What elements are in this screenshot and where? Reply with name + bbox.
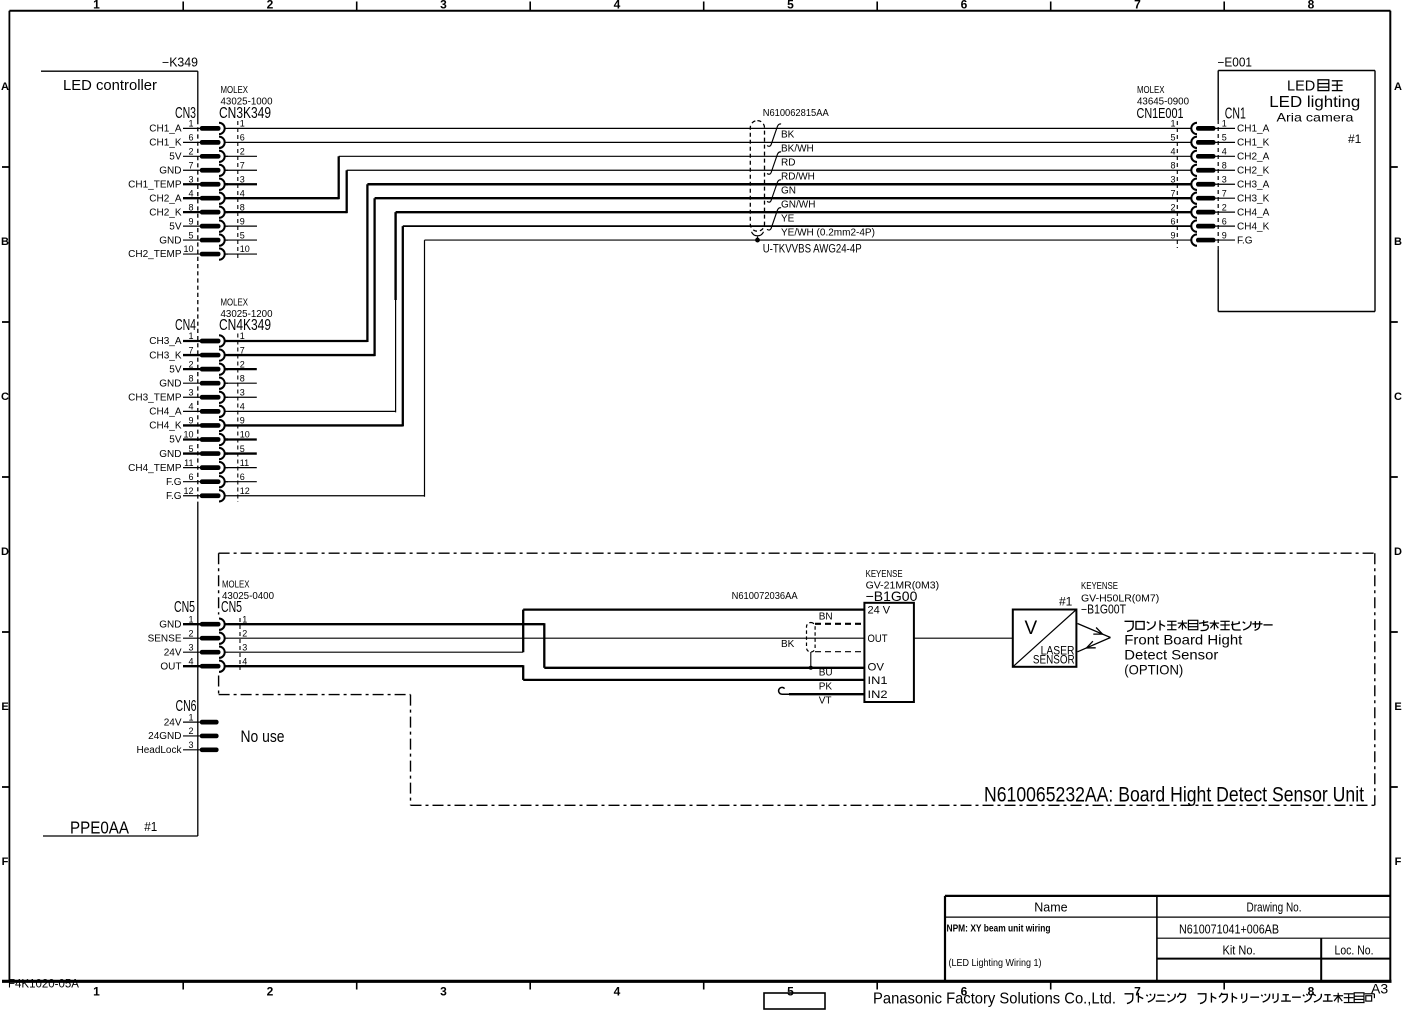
svg-text:5: 5 — [1170, 133, 1175, 143]
svg-text:GND: GND — [159, 378, 181, 389]
svg-text:CH1_A: CH1_A — [1237, 124, 1270, 135]
svg-text:4: 4 — [240, 402, 245, 412]
svg-text:3: 3 — [440, 985, 447, 999]
connector CN3 pin 5 (GND) — [159, 230, 245, 246]
svg-text:IN2: IN2 — [868, 689, 888, 701]
svg-text:11: 11 — [240, 458, 249, 468]
connector CN4 pin 4 (CH4_A) — [149, 402, 245, 418]
svg-text:5: 5 — [787, 0, 794, 12]
svg-text:6: 6 — [1222, 216, 1227, 226]
svg-text:CH2_TEMP: CH2_TEMP — [128, 249, 182, 260]
svg-text:HeadLock: HeadLock — [136, 745, 182, 756]
svg-text:CN3K349: CN3K349 — [219, 105, 271, 122]
svg-text:GN: GN — [781, 186, 796, 197]
svg-text:OV: OV — [868, 662, 885, 674]
svg-text:E: E — [1, 701, 8, 713]
LED controller -K349 — [41, 56, 198, 836]
svg-text:N610065232AA: Board Hight Dete: N610065232AA: Board Hight Detect Sensor … — [984, 784, 1364, 807]
connector CN4 pin 11 (CH4_TEMP) — [128, 458, 249, 474]
svg-text:N610062815AA: N610062815AA — [763, 107, 829, 119]
connector CN1 pin 2 (CH4_A) — [1170, 202, 1269, 218]
svg-text:1: 1 — [188, 331, 193, 341]
svg-text:3: 3 — [242, 642, 247, 652]
svg-text:8: 8 — [1308, 0, 1315, 12]
svg-text:MOLEX: MOLEX — [222, 580, 250, 591]
wire 24V to 24 V (BN) — [228, 610, 864, 653]
connector CN4 mating dashed line — [237, 334, 239, 503]
svg-text:9: 9 — [188, 216, 193, 226]
svg-text:GND: GND — [159, 165, 181, 176]
connector CN1 pin 8 (CH2_K) — [1170, 160, 1269, 176]
svg-text:3: 3 — [188, 740, 193, 750]
svg-text:8: 8 — [1222, 160, 1227, 170]
svg-text:3: 3 — [240, 174, 245, 184]
svg-text:BK: BK — [781, 639, 795, 650]
connector CN3 pin 8 (CH2_K) — [149, 202, 245, 218]
svg-text:10: 10 — [183, 430, 193, 440]
svg-text:CH3_TEMP: CH3_TEMP — [128, 392, 182, 403]
footer Panasonic Factory Solutions — [873, 990, 1374, 1007]
wire B1G00 OUT to laser sensor — [914, 637, 1013, 639]
connector CN1 pin 1 (CH1_A) — [1170, 119, 1269, 135]
connector CN4 pin 2 (5V) — [169, 359, 245, 375]
svg-text:NPM: XY beam unit wiring: NPM: XY beam unit wiring — [947, 923, 1051, 935]
cable shield (dashed oval) — [750, 121, 764, 232]
svg-text:CN5: CN5 — [221, 599, 242, 616]
svg-text:BU: BU — [819, 668, 833, 679]
connector CN1E001 mating dashed line — [1176, 121, 1178, 248]
connector CN3 pin 3 (CH1_TEMP) — [128, 174, 245, 190]
wire CH4_A (YE) — [228, 212, 1191, 412]
svg-text:CN5: CN5 — [174, 599, 195, 616]
wire OUT to IN1 (bold) — [228, 665, 864, 680]
svg-text:5: 5 — [787, 985, 794, 999]
svg-text:4: 4 — [240, 188, 245, 198]
svg-text:2: 2 — [267, 985, 274, 999]
svg-text:BK: BK — [781, 130, 795, 141]
svg-text:VT: VT — [819, 696, 832, 707]
svg-text:9: 9 — [188, 416, 193, 426]
svg-text:−B1G00: −B1G00 — [866, 588, 918, 604]
wire CH4_K (YE/WH) — [228, 226, 1191, 426]
connector CN5 pin 1 (GND) — [159, 614, 247, 630]
svg-text:CH2_K: CH2_K — [1237, 165, 1270, 176]
svg-text:7: 7 — [1222, 188, 1227, 198]
svg-text:24GND: 24GND — [148, 731, 181, 742]
svg-text:LED lighting: LED lighting — [1269, 94, 1360, 111]
svg-text:PPE0AA: PPE0AA — [70, 817, 129, 837]
svg-text:8: 8 — [1170, 160, 1175, 170]
svg-text:12: 12 — [240, 486, 250, 496]
CN4 unused pin stubs — [225, 369, 257, 482]
label No use — [241, 728, 285, 746]
svg-text:4: 4 — [614, 985, 621, 999]
wire SENSE to OUT — [228, 637, 864, 639]
svg-text:3: 3 — [188, 387, 193, 397]
svg-text:7: 7 — [188, 345, 193, 355]
title block table — [945, 896, 1390, 981]
svg-text:F.G: F.G — [166, 477, 182, 488]
wire CH2_A (RD) — [228, 156, 1191, 199]
svg-text:No use: No use — [241, 728, 285, 746]
svg-text:5: 5 — [240, 230, 245, 240]
svg-text:CH1_TEMP: CH1_TEMP — [128, 179, 182, 190]
svg-text:3: 3 — [1222, 174, 1227, 184]
label PPE0AA #1 — [70, 817, 157, 837]
svg-text:MOLEX: MOLEX — [1137, 85, 1165, 96]
svg-text:−E001: −E001 — [1218, 56, 1253, 70]
svg-text:U-TKVVBS AWG24-4P: U-TKVVBS AWG24-4P — [763, 244, 862, 256]
svg-text:F4K1020-05A: F4K1020-05A — [8, 979, 79, 991]
B1G00 wire colour labels — [781, 612, 833, 707]
shield bubble on BK wire — [807, 623, 865, 670]
svg-text:OUT: OUT — [160, 661, 181, 672]
svg-text:2: 2 — [240, 147, 245, 157]
svg-text:2: 2 — [1170, 202, 1175, 212]
svg-text:9: 9 — [240, 216, 245, 226]
laser sensor -B1G00T (KEYENSE GV-H50LR) — [1013, 581, 1159, 667]
svg-text:6: 6 — [188, 472, 193, 482]
sensor description (Japanese) — [1124, 620, 1272, 677]
laser beam arrows — [1078, 624, 1111, 652]
svg-text:5: 5 — [1222, 133, 1227, 143]
connector CN3 mating dashed line — [237, 121, 239, 260]
svg-text:CN1E001: CN1E001 — [1137, 105, 1184, 122]
svg-text:CH3_A: CH3_A — [149, 336, 182, 347]
svg-text:4: 4 — [188, 656, 193, 666]
svg-text:CH3_K: CH3_K — [1237, 193, 1270, 204]
svg-text:Drawing No.: Drawing No. — [1247, 901, 1302, 915]
connector CN5 mating dashed line — [239, 618, 241, 670]
svg-text:D: D — [1, 546, 9, 558]
svg-text:8: 8 — [240, 373, 245, 383]
wire CH1_A (BK) — [228, 127, 1191, 129]
connector CN4 pin 9 (CH4_K) — [149, 416, 245, 432]
wire GND to 0V (bold) — [228, 623, 864, 668]
connector CN1 pin 7 (CH3_K) — [1170, 188, 1269, 204]
svg-text:C: C — [1, 391, 9, 403]
svg-text:5: 5 — [188, 444, 193, 454]
svg-text:F: F — [1395, 856, 1402, 868]
svg-text:4: 4 — [1222, 147, 1227, 157]
svg-text:#1: #1 — [1348, 132, 1362, 146]
svg-text:CH4_K: CH4_K — [149, 421, 182, 432]
svg-text:1: 1 — [1222, 119, 1227, 129]
svg-text:1: 1 — [188, 614, 193, 624]
wire CH2_K (RD/WH) — [228, 170, 1191, 213]
wire CH1_K (BK/WH) — [228, 141, 1191, 143]
svg-text:CH4_A: CH4_A — [1237, 207, 1270, 218]
connector CN5 header MOLEX 43025-0400 CN5 — [174, 580, 274, 616]
svg-text:RD/WH: RD/WH — [781, 172, 815, 183]
cable type label — [763, 244, 862, 256]
svg-text:6: 6 — [240, 133, 245, 143]
svg-text:6: 6 — [1170, 216, 1175, 226]
connector CN3 pin 4 (CH2_A) — [149, 188, 245, 204]
svg-text:A: A — [1394, 81, 1402, 93]
connector CN4 pin 10 (5V) — [169, 430, 250, 446]
svg-text:24 V: 24 V — [868, 605, 891, 617]
svg-text:OUT: OUT — [868, 633, 888, 645]
svg-text:BK/WH: BK/WH — [781, 144, 814, 155]
connector CN3 pin 7 (GND) — [159, 160, 245, 176]
svg-text:1: 1 — [188, 712, 193, 722]
connector CN3 pin 2 (5V) — [169, 147, 245, 163]
svg-text:CH4_K: CH4_K — [1237, 221, 1270, 232]
svg-text:B: B — [1, 236, 9, 248]
wire IN2 hook (VT) — [779, 687, 865, 694]
svg-text:1: 1 — [240, 331, 245, 341]
kanji 照明 (LED照明) — [1318, 80, 1343, 91]
svg-text:1: 1 — [93, 985, 100, 999]
svg-text:YE/WH (0.2mm2-4P): YE/WH (0.2mm2-4P) — [781, 227, 875, 238]
svg-text:RD: RD — [781, 158, 795, 169]
svg-text:3: 3 — [188, 174, 193, 184]
svg-text:CH1_K: CH1_K — [149, 138, 182, 149]
svg-text:8: 8 — [188, 202, 193, 212]
svg-text:YE: YE — [781, 213, 795, 224]
shield drain symbol — [752, 232, 764, 240]
svg-text:3: 3 — [440, 0, 447, 12]
svg-text:GND: GND — [159, 619, 181, 630]
svg-text:11: 11 — [184, 458, 193, 468]
option unit boundary N610065232AA (dash-dot) — [219, 553, 1375, 805]
amplifier unit -B1G00 (KEYENSE GV-21MR) — [864, 569, 939, 702]
svg-text:CH2_A: CH2_A — [1237, 152, 1270, 163]
svg-text:−K349: −K349 — [162, 56, 198, 70]
wire CH3_A (GN) — [228, 184, 1191, 342]
svg-text:D: D — [1394, 546, 1402, 558]
svg-text:2: 2 — [188, 726, 193, 736]
svg-text:V: V — [1025, 618, 1038, 639]
connector CN1 pin 3 (CH3_A) — [1170, 174, 1269, 190]
svg-text:N610071041+006AB: N610071041+006AB — [1179, 922, 1279, 937]
svg-text:KEYENSE: KEYENSE — [1081, 581, 1118, 592]
svg-text:3: 3 — [1170, 174, 1175, 184]
cable N610062815AA label — [763, 107, 829, 119]
svg-text:BN: BN — [819, 612, 833, 623]
svg-text:SENSOR: SENSOR — [1033, 655, 1075, 667]
svg-text:Kit No.: Kit No. — [1223, 944, 1256, 958]
CN3 unused pin stubs — [225, 156, 257, 254]
svg-text:C: C — [1394, 391, 1402, 403]
svg-text:IN1: IN1 — [868, 675, 888, 687]
svg-text:CH4_A: CH4_A — [149, 407, 182, 418]
svg-text:GN/WH: GN/WH — [781, 200, 815, 211]
connector CN1 pin 6 (CH4_K) — [1170, 216, 1269, 232]
cable N610072036AA label — [732, 590, 798, 602]
connector CN3 pin 6 (CH1_K) — [149, 133, 245, 149]
connector CN4 pin 7 (CH3_K) — [149, 345, 245, 361]
svg-text:3: 3 — [240, 387, 245, 397]
svg-text:#1: #1 — [144, 819, 157, 834]
svg-text:5V: 5V — [169, 364, 182, 375]
svg-text:(LED Lighting Wiring 1): (LED Lighting Wiring 1) — [949, 957, 1042, 969]
svg-text:6: 6 — [240, 472, 245, 482]
svg-text:Name: Name — [1034, 901, 1067, 915]
svg-text:10: 10 — [240, 244, 250, 254]
svg-text:Loc. No.: Loc. No. — [1335, 944, 1374, 958]
svg-text:9: 9 — [240, 416, 245, 426]
svg-text:7: 7 — [1134, 0, 1141, 12]
svg-text:7: 7 — [240, 160, 245, 170]
svg-text:8: 8 — [188, 373, 193, 383]
connector CN4 header MOLEX 43025-1200 CN4K349 — [175, 298, 273, 335]
E001 titles — [1137, 85, 1362, 146]
svg-text:10: 10 — [183, 244, 193, 254]
svg-text:1: 1 — [1170, 119, 1175, 129]
connector CN6 pin 1 (24V) — [164, 712, 219, 728]
svg-text:4: 4 — [614, 0, 621, 12]
svg-text:CH1_A: CH1_A — [149, 124, 182, 135]
wire F.G — [228, 240, 1191, 497]
connector CN1 pin 9 (F.G) — [1170, 230, 1252, 246]
svg-text:5V: 5V — [169, 221, 182, 232]
wire CH3_K (GN/WH) — [228, 198, 1191, 356]
svg-text:F.G: F.G — [1237, 235, 1253, 246]
svg-text:7: 7 — [1170, 188, 1175, 198]
svg-text:Aria camera: Aria camera — [1277, 111, 1354, 125]
svg-text:5V: 5V — [169, 152, 182, 163]
connector CN6 pin 2 (24GND) — [148, 726, 218, 742]
LED lighting unit -E001 box — [1218, 56, 1376, 312]
connector CN4 pin 8 (GND) — [159, 373, 245, 389]
svg-text:1: 1 — [242, 614, 247, 624]
svg-text:2: 2 — [188, 359, 193, 369]
svg-text:4: 4 — [242, 656, 247, 666]
connector CN3 pin 9 (5V) — [169, 216, 245, 232]
svg-text:Detect Sensor: Detect Sensor — [1124, 648, 1218, 663]
svg-text:PK: PK — [819, 682, 833, 693]
connector CN5 pin 3 (24V) — [164, 642, 248, 658]
connector CN4 pin 3 (CH3_TEMP) — [128, 387, 245, 403]
svg-text:N610072036AA: N610072036AA — [732, 590, 798, 602]
option unit label — [984, 784, 1364, 807]
svg-text:7: 7 — [188, 160, 193, 170]
connector CN5 pin 2 (SENSE) — [148, 628, 248, 644]
svg-text:4: 4 — [1170, 147, 1175, 157]
svg-text:CH1_K: CH1_K — [1237, 138, 1270, 149]
svg-text:5V: 5V — [169, 435, 182, 446]
svg-text:4: 4 — [188, 188, 193, 198]
svg-text:MOLEX: MOLEX — [221, 85, 249, 96]
junction dot shield drain to F.G — [755, 238, 760, 243]
svg-text:4: 4 — [188, 402, 193, 412]
svg-text:CN1: CN1 — [1225, 106, 1246, 123]
svg-text:−B1G00T: −B1G00T — [1081, 603, 1126, 617]
connector CN4 pin 6 (F.G) — [166, 472, 245, 488]
svg-text:F: F — [2, 856, 9, 868]
svg-text:6: 6 — [961, 0, 968, 12]
svg-text:KEYENSE: KEYENSE — [866, 569, 903, 580]
connector CN4 pin 1 (CH3_A) — [149, 331, 245, 347]
twisted pair marks — [767, 124, 781, 230]
svg-text:2: 2 — [240, 359, 245, 369]
svg-text:CH2_K: CH2_K — [149, 207, 182, 218]
svg-text:(OPTION): (OPTION) — [1124, 663, 1183, 678]
svg-text:2: 2 — [267, 0, 274, 12]
connector CN4 pin 12 (F.G) — [166, 486, 250, 502]
svg-text:8: 8 — [240, 202, 245, 212]
svg-text:A: A — [1, 81, 9, 93]
svg-text:Panasonic Factory Solutions Co: Panasonic Factory Solutions Co.,Ltd. — [873, 990, 1116, 1007]
svg-text:MOLEX: MOLEX — [221, 298, 249, 309]
svg-text:6: 6 — [188, 133, 193, 143]
svg-text:2: 2 — [242, 628, 247, 638]
svg-text:9: 9 — [1170, 230, 1175, 240]
svg-text:GND: GND — [159, 449, 181, 460]
svg-text:CN4K349: CN4K349 — [219, 317, 271, 334]
svg-text:GND: GND — [159, 235, 181, 246]
svg-text:2: 2 — [188, 628, 193, 638]
svg-text:CH2_A: CH2_A — [149, 193, 182, 204]
svg-text:10: 10 — [240, 430, 250, 440]
svg-text:Front Board Hight: Front Board Hight — [1124, 633, 1242, 648]
svg-text:9: 9 — [1222, 230, 1227, 240]
connector CN3 header MOLEX 43025-1000 CN3K349 — [175, 85, 273, 122]
svg-text:2: 2 — [188, 147, 193, 157]
svg-text:2: 2 — [1222, 202, 1227, 212]
connector CN6 header — [176, 698, 197, 715]
svg-text:1: 1 — [240, 119, 245, 129]
svg-text:#1: #1 — [1059, 595, 1073, 609]
svg-text:LED controller: LED controller — [63, 77, 157, 94]
svg-text:5: 5 — [188, 230, 193, 240]
connector CN4 pin 5 (GND) — [159, 444, 245, 460]
svg-text:24V: 24V — [164, 647, 182, 658]
connector CN1 pin 4 (CH2_A) — [1170, 147, 1269, 163]
svg-text:CH3_K: CH3_K — [149, 350, 182, 361]
svg-text:SENSE: SENSE — [148, 633, 182, 644]
connector CN3 pin 10 (CH2_TEMP) — [128, 244, 250, 260]
svg-text:E: E — [1394, 701, 1401, 713]
svg-text:LED: LED — [1287, 79, 1315, 95]
connector CN6 pin 3 (HeadLock) — [136, 740, 218, 756]
svg-text:24V: 24V — [164, 717, 182, 728]
svg-text:1: 1 — [188, 119, 193, 129]
connector CN3 pin 1 (CH1_A) — [149, 119, 245, 135]
svg-text:F.G: F.G — [166, 491, 182, 502]
svg-text:B: B — [1394, 236, 1402, 248]
svg-text:CH4_TEMP: CH4_TEMP — [128, 463, 182, 474]
connector CN5 pin 4 (OUT) — [160, 656, 247, 672]
svg-text:1: 1 — [93, 0, 100, 12]
svg-text:CH3_A: CH3_A — [1237, 179, 1270, 190]
svg-text:12: 12 — [183, 486, 193, 496]
svg-text:5: 5 — [240, 444, 245, 454]
svg-text:7: 7 — [240, 345, 245, 355]
wire colour labels — [781, 130, 875, 239]
svg-text:3: 3 — [188, 642, 193, 652]
connector CN1 pin 5 (CH1_K) — [1170, 133, 1269, 149]
